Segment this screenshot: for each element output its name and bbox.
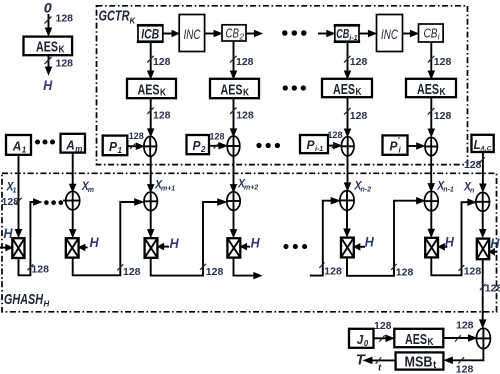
wire J0 to AES-K tag with 128 tick bbox=[374, 320, 394, 342]
ellipsis AES row bbox=[283, 86, 305, 90]
svg-text:H: H bbox=[170, 236, 179, 251]
svg-text:0: 0 bbox=[44, 1, 53, 16]
GHASH-H dashed function frame bbox=[2, 173, 497, 311]
svg-text:K: K bbox=[160, 87, 167, 98]
wire INC to CBi bbox=[403, 30, 419, 36]
svg-text:2: 2 bbox=[200, 145, 206, 154]
wire xor1 down to ghash xor Xm+1 bbox=[148, 156, 154, 192]
wire mult2 out down right up arrow to xor Xm+1 with 128 tick bbox=[73, 199, 144, 278]
svg-text:128: 128 bbox=[464, 159, 482, 171]
svg-text:128: 128 bbox=[2, 196, 20, 208]
wire AES col3 to xor3 with 128 tick bbox=[344, 97, 367, 136]
svg-text:128: 128 bbox=[153, 110, 171, 122]
svg-text:0: 0 bbox=[364, 339, 369, 348]
xor3 GCTR bbox=[341, 137, 354, 156]
svg-text:i: i bbox=[438, 33, 440, 42]
wire AES-K tag to final xor with 128 tick bbox=[443, 320, 476, 342]
block ICB (initial counter block) bbox=[137, 25, 164, 42]
svg-text:128: 128 bbox=[153, 56, 171, 68]
svg-text:AES: AES bbox=[333, 81, 355, 98]
block AES-K encrypt col3 bbox=[322, 79, 372, 98]
block P2 (plaintext block 2) bbox=[187, 135, 210, 154]
wire mult7 out down to final xor with 128 tick bbox=[480, 259, 500, 327]
svg-text:H: H bbox=[251, 236, 260, 251]
wire ICB to AES-K col1 with 128 tick bbox=[147, 43, 170, 79]
svg-text:AES: AES bbox=[138, 81, 160, 98]
wire mult3 out down right up arrow to xor Xm+2 with 128 tick bbox=[151, 199, 227, 278]
wire Pi to xor4 bbox=[408, 143, 425, 149]
multiplier mult6 bbox=[425, 238, 438, 258]
wire CB2 to AES-K col2 with 128 tick bbox=[230, 41, 254, 79]
ghash xor Xn-1 bbox=[424, 191, 438, 211]
svg-text:n-2: n-2 bbox=[361, 186, 372, 193]
svg-text:128: 128 bbox=[434, 56, 452, 68]
svg-text:ICB: ICB bbox=[141, 27, 159, 42]
block AES-K tag bbox=[394, 329, 443, 348]
svg-text:128: 128 bbox=[464, 265, 482, 277]
svg-text:AES: AES bbox=[36, 39, 58, 56]
block AES-K encrypt col2 bbox=[210, 79, 259, 99]
ellipsis counter row bbox=[283, 31, 307, 36]
svg-text:128: 128 bbox=[123, 266, 141, 278]
wire ICB to INC bbox=[164, 30, 179, 36]
svg-text:CB: CB bbox=[424, 27, 438, 41]
block P1 (plaintext block 1) bbox=[103, 136, 128, 156]
svg-text:128: 128 bbox=[350, 56, 368, 68]
wire xor Xm to mult2 bbox=[70, 210, 76, 237]
block CB2 (counter block 2) bbox=[222, 25, 246, 42]
xor1 GCTR bbox=[144, 136, 157, 156]
block Pi prime (last plaintext block) bbox=[383, 135, 408, 154]
block Pi-1 (plaintext block i-1) bbox=[300, 135, 328, 153]
wire final xor down left into MSB with 128 tick bbox=[445, 349, 484, 374]
svg-text:INC: INC bbox=[184, 26, 202, 42]
svg-text:128: 128 bbox=[324, 266, 342, 278]
svg-text:H: H bbox=[365, 234, 374, 249]
svg-text:m+1: m+1 bbox=[161, 185, 175, 192]
svg-text:K: K bbox=[428, 337, 435, 348]
wire xor4 down to ghash xor Xn-1 bbox=[428, 156, 434, 192]
svg-text:i-1: i-1 bbox=[349, 35, 357, 42]
svg-text:K: K bbox=[440, 87, 447, 98]
wire ellipsis to CBi-1 bbox=[318, 30, 334, 36]
svg-text:128: 128 bbox=[456, 364, 474, 374]
multiplier mult3 bbox=[145, 238, 158, 258]
wire H into mult2 from right bbox=[79, 244, 88, 250]
wire P1 to xor1 with 128 tick bbox=[127, 131, 144, 149]
wire CB2 to ellipsis bbox=[246, 30, 262, 36]
svg-text:K: K bbox=[356, 87, 363, 98]
wire resume right up arrow to xor Xn-2 with 128 tick bbox=[310, 198, 342, 278]
svg-text:128: 128 bbox=[210, 132, 225, 142]
svg-text:128: 128 bbox=[328, 130, 343, 140]
ghash xor Xm+2 bbox=[227, 192, 240, 211]
wire H into mult5 from right bbox=[354, 244, 365, 250]
wire xor Xn to mult7 bbox=[480, 211, 486, 237]
wire CBi to AES-K col4 with 128 tick bbox=[428, 42, 452, 79]
ellipsis xor row GCTR bbox=[257, 143, 280, 147]
node label Xm bbox=[81, 181, 94, 194]
wire mult6 out down right up arrow to xor Xn with 128 tick bbox=[431, 199, 481, 277]
block INC (counter increment) bbox=[179, 15, 204, 52]
wire xor3 down to ghash xor Xn-2 bbox=[344, 156, 350, 191]
svg-text:m: m bbox=[75, 144, 82, 153]
ellipsis ghash mult row bbox=[284, 245, 307, 249]
multiplier mult2 bbox=[66, 238, 79, 257]
wire P2 to xor2 with 128 tick bbox=[209, 132, 227, 149]
svg-text:GCTR: GCTR bbox=[99, 8, 130, 25]
svg-text:128: 128 bbox=[206, 266, 224, 278]
wire H into mult3 from right bbox=[158, 244, 169, 250]
wire AES col2 to xor2 with 128 tick bbox=[230, 98, 254, 136]
wire LAC down to xor Xn with 128 tick bbox=[464, 152, 486, 192]
final xor tag bbox=[476, 328, 490, 348]
svg-text:128: 128 bbox=[56, 13, 74, 25]
svg-text:K: K bbox=[243, 87, 250, 98]
xor4 GCTR bbox=[425, 137, 437, 155]
svg-text:m: m bbox=[88, 187, 94, 194]
wire AES col1 to xor1 with 128 tick bbox=[147, 98, 170, 136]
wire CBi-1 to INC bbox=[359, 30, 376, 36]
wire xor Xn-1 to mult6 bbox=[428, 211, 434, 237]
wire MSB out to T with t width tick bbox=[364, 357, 396, 373]
block INC second instance bbox=[377, 15, 403, 52]
svg-text:A: A bbox=[12, 139, 21, 154]
wire A1 down to mult1 X1 with 128 tick bbox=[15, 155, 21, 237]
wire Am down to ghash xor Xm bbox=[70, 153, 76, 192]
wire H into mult1 from left bbox=[0, 245, 12, 251]
ghash xor Xm bbox=[63, 191, 80, 209]
svg-text:K: K bbox=[59, 45, 66, 56]
svg-text:i-1: i-1 bbox=[315, 146, 323, 153]
wire AES-K to H with 128 bus tick bbox=[45, 55, 74, 74]
wire xor2 down to ghash xor Xm+2 bbox=[230, 156, 236, 192]
svg-text:AES: AES bbox=[221, 81, 243, 98]
svg-text:GHASH: GHASH bbox=[4, 291, 44, 308]
svg-text:128: 128 bbox=[456, 320, 474, 332]
wire AES col4 to xor4 with 128 tick bbox=[428, 97, 452, 136]
ghash xor Xn-2 bbox=[340, 191, 354, 211]
block AES-K encrypt col4 bbox=[406, 79, 456, 98]
svg-text:n-1: n-1 bbox=[443, 186, 454, 193]
wire mult1 out down right up with 128 tick and arrow to ellipsis bbox=[19, 199, 50, 276]
svg-text:128: 128 bbox=[374, 320, 392, 332]
svg-text:128: 128 bbox=[56, 58, 74, 70]
wire mult4 out down right to arrow stub bbox=[234, 258, 262, 279]
svg-text:H: H bbox=[445, 234, 454, 249]
multiplier mult7 bbox=[477, 239, 489, 260]
svg-text:m+2: m+2 bbox=[244, 184, 258, 191]
svg-text:1: 1 bbox=[13, 187, 17, 194]
svg-text:128: 128 bbox=[236, 110, 254, 122]
wire Pi-1 to xor3 with 128 tick bbox=[328, 130, 343, 149]
svg-text:128: 128 bbox=[485, 283, 500, 295]
ellipsis ghash xor row bbox=[45, 201, 63, 205]
svg-text:128: 128 bbox=[31, 264, 49, 276]
block Am (AAD block m) bbox=[61, 134, 86, 154]
xor2 GCTR bbox=[227, 136, 240, 156]
node label Xm+1 bbox=[154, 180, 175, 193]
svg-text:INC: INC bbox=[381, 26, 399, 42]
wire xor Xn-2 to mult5 bbox=[344, 210, 350, 236]
svg-text:H: H bbox=[490, 236, 499, 251]
svg-text:2: 2 bbox=[239, 33, 245, 42]
svg-text:128: 128 bbox=[396, 266, 414, 278]
block A1 (AAD block 1) bbox=[6, 135, 31, 155]
node label Xn bbox=[463, 182, 474, 195]
wire H into mult7 from right bbox=[489, 249, 497, 255]
wire H into mult6 from right bbox=[438, 244, 447, 250]
svg-text:CB: CB bbox=[226, 27, 240, 41]
svg-text:MSB: MSB bbox=[405, 353, 433, 370]
node label X1 bbox=[6, 182, 17, 195]
svg-text:P: P bbox=[193, 139, 202, 153]
block J0 (pre-counter block) bbox=[349, 329, 374, 348]
wire mult5 out down right up arrow to xor Xn-1 with 128 tick bbox=[347, 198, 424, 279]
block AES-K encrypt col1 bbox=[127, 79, 176, 99]
wire H into mult4 from right bbox=[241, 244, 251, 250]
svg-text:1: 1 bbox=[22, 146, 27, 155]
svg-text:H: H bbox=[90, 235, 99, 250]
block LAC (length block) bbox=[472, 135, 494, 153]
ghash xor Xn bbox=[476, 192, 490, 211]
node label Xn-1 bbox=[436, 181, 454, 194]
svg-text:128: 128 bbox=[129, 131, 144, 141]
multiplier mult5 bbox=[341, 238, 354, 258]
svg-text:A: A bbox=[65, 137, 74, 152]
node label Xn-2 bbox=[354, 181, 372, 194]
wire CBi-1 to AES-K col3 with 128 tick bbox=[344, 43, 367, 79]
svg-text:CB: CB bbox=[336, 27, 349, 41]
svg-text:128: 128 bbox=[434, 110, 452, 122]
svg-text:P: P bbox=[109, 140, 118, 154]
svg-text:128: 128 bbox=[236, 56, 254, 68]
wire xor Xm+1 to mult3 bbox=[148, 211, 154, 238]
multiplier mult4 bbox=[227, 238, 240, 257]
svg-text:H: H bbox=[44, 300, 50, 309]
ellipsis AAD row bbox=[35, 140, 54, 144]
GCTR-K dashed function frame bbox=[97, 6, 468, 165]
node label Xm+2 bbox=[237, 179, 258, 192]
svg-text:A,C: A,C bbox=[479, 146, 491, 153]
svg-text:H: H bbox=[43, 78, 52, 93]
wire 0 to AES-K with 128 bus tick bbox=[45, 13, 74, 36]
svg-text:AES: AES bbox=[417, 81, 439, 98]
block AES-K (hash subkey generator) bbox=[24, 37, 73, 56]
block CBi-1 (counter block i-1) bbox=[334, 25, 360, 42]
svg-text:AES: AES bbox=[405, 331, 427, 348]
block CBi (counter block i) bbox=[419, 24, 444, 42]
wire INC to CB2 bbox=[205, 30, 222, 36]
svg-text:n: n bbox=[470, 187, 474, 194]
svg-text:128: 128 bbox=[350, 110, 368, 122]
ghash xor Xm+1 bbox=[144, 192, 157, 211]
block MSBt (truncate to t bits) bbox=[396, 352, 444, 370]
multiplier mult1 (GF mult by H) bbox=[12, 238, 24, 258]
svg-text:1: 1 bbox=[118, 146, 123, 155]
wire xor Xm+2 to mult4 bbox=[230, 210, 236, 237]
